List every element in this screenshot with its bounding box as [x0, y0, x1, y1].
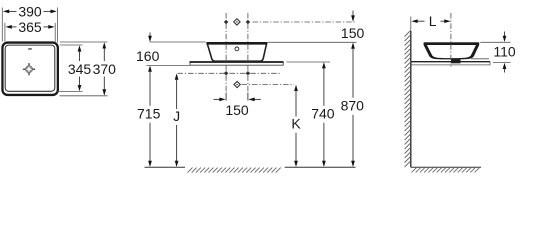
svg-text:160: 160	[136, 48, 160, 64]
svg-text:870: 870	[341, 98, 365, 114]
svg-text:370: 370	[93, 61, 117, 77]
svg-text:740: 740	[311, 106, 335, 122]
svg-text:150: 150	[341, 25, 365, 41]
svg-text:K: K	[291, 116, 301, 132]
svg-text:J: J	[173, 108, 180, 124]
svg-text:715: 715	[137, 106, 161, 122]
svg-text:365: 365	[18, 19, 42, 35]
svg-text:150: 150	[225, 102, 249, 118]
svg-text:L: L	[429, 13, 437, 29]
svg-text:345: 345	[68, 61, 92, 77]
svg-text:110: 110	[493, 44, 516, 60]
svg-text:390: 390	[18, 4, 42, 20]
